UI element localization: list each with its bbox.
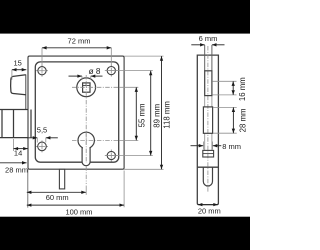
svg-text:89 mm: 89 mm xyxy=(152,104,161,128)
svg-text:28 mm: 28 mm xyxy=(239,108,248,132)
svg-text:14: 14 xyxy=(14,148,22,157)
svg-text:ø 8: ø 8 xyxy=(89,67,101,76)
svg-text:118 mm: 118 mm xyxy=(163,101,172,129)
svg-text:60 mm: 60 mm xyxy=(46,193,69,202)
svg-text:72 mm: 72 mm xyxy=(68,37,91,46)
svg-text:28 mm: 28 mm xyxy=(5,165,28,174)
svg-text:5,5: 5,5 xyxy=(37,125,47,134)
svg-text:6 mm: 6 mm xyxy=(199,34,218,43)
svg-text:55 mm: 55 mm xyxy=(137,103,146,127)
svg-text:16 mm: 16 mm xyxy=(238,77,247,101)
svg-text:100 mm: 100 mm xyxy=(65,207,92,216)
svg-text:8 mm: 8 mm xyxy=(222,142,241,151)
svg-text:15: 15 xyxy=(14,58,22,67)
svg-text:20 mm: 20 mm xyxy=(198,207,221,216)
